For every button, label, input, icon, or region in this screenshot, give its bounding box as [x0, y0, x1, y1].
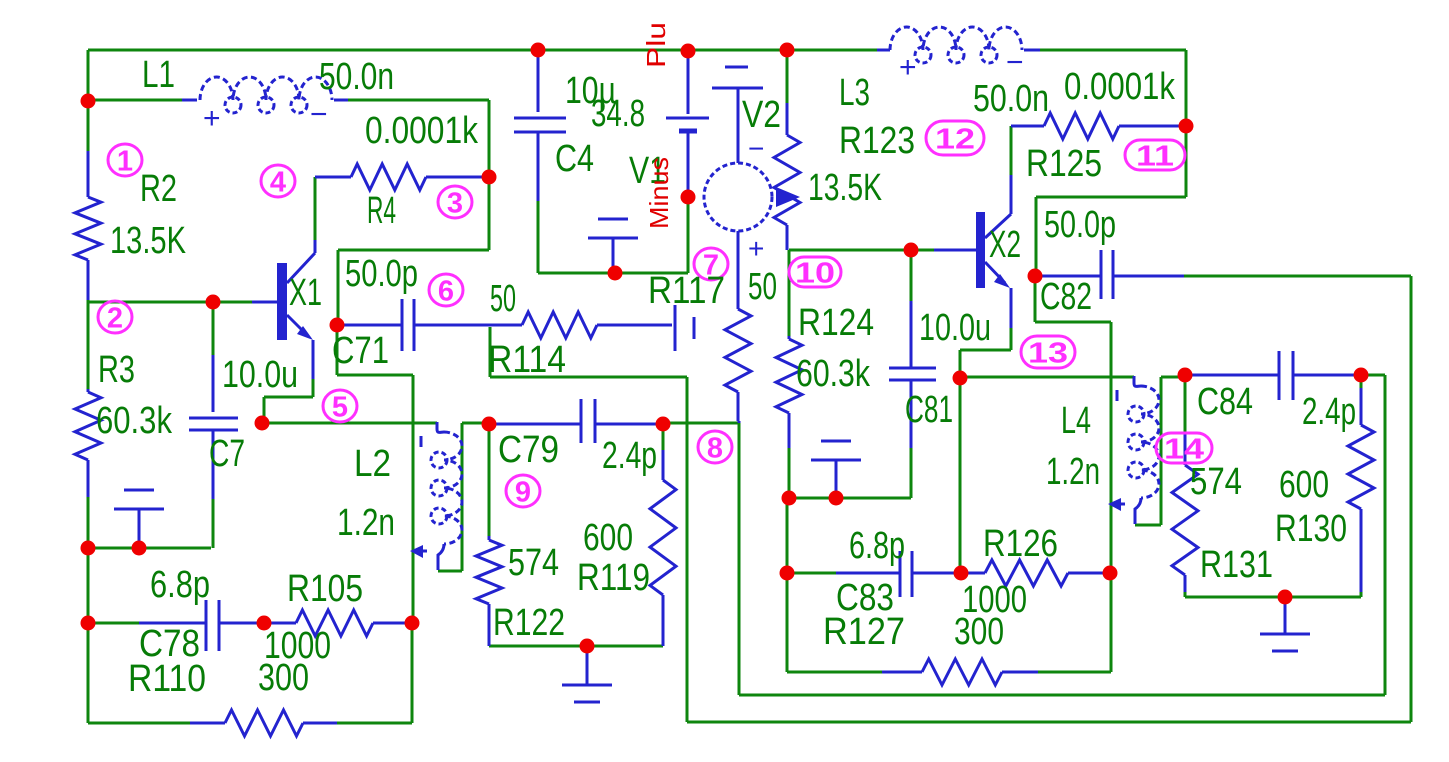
svg-text:50.0n: 50.0n	[319, 56, 394, 98]
svg-text:12: 12	[935, 123, 975, 155]
svg-text:6: 6	[438, 275, 454, 307]
svg-text:3: 3	[447, 187, 463, 219]
svg-text:Minus: Minus	[644, 157, 674, 229]
svg-text:R3: R3	[98, 349, 135, 391]
svg-text:1: 1	[117, 145, 133, 177]
svg-text:R122: R122	[493, 602, 565, 644]
svg-text:L4: L4	[1061, 400, 1091, 442]
svg-text:C71: C71	[332, 330, 389, 372]
svg-text:C7: C7	[209, 433, 245, 475]
svg-text:10.0u: 10.0u	[919, 307, 991, 349]
svg-text:50.0p: 50.0p	[345, 253, 418, 295]
svg-text:R130: R130	[1275, 508, 1347, 550]
svg-text:X1: X1	[289, 272, 322, 314]
svg-text:2: 2	[107, 302, 123, 334]
svg-text:574: 574	[1190, 461, 1242, 503]
svg-text:50.0n: 50.0n	[973, 78, 1049, 120]
svg-text:R124: R124	[798, 302, 874, 344]
svg-text:+: +	[748, 233, 764, 264]
svg-text:8: 8	[707, 432, 723, 464]
svg-text:C84: C84	[1197, 381, 1253, 423]
svg-text:60.3k: 60.3k	[96, 400, 173, 442]
svg-text:0.0001k: 0.0001k	[365, 110, 479, 152]
svg-text:L1: L1	[142, 54, 175, 96]
svg-text:R114: R114	[488, 339, 566, 381]
svg-text:R119: R119	[577, 557, 650, 599]
svg-text:R131: R131	[1200, 544, 1273, 586]
svg-text:R110: R110	[128, 658, 206, 700]
svg-text:4: 4	[270, 166, 286, 198]
svg-text:L2: L2	[354, 443, 391, 485]
svg-text:R123: R123	[839, 120, 915, 162]
svg-text:R127: R127	[823, 611, 905, 653]
svg-text:0.0001k: 0.0001k	[1064, 66, 1176, 108]
svg-text:R126: R126	[983, 523, 1058, 565]
svg-text:300: 300	[258, 657, 309, 699]
svg-text:13.5K: 13.5K	[808, 167, 882, 209]
svg-text:−: −	[310, 98, 328, 131]
svg-text:10: 10	[795, 257, 835, 289]
svg-text:1.2n: 1.2n	[337, 502, 395, 544]
svg-text:R125: R125	[1026, 143, 1102, 185]
svg-text:−: −	[748, 133, 764, 164]
svg-text:11: 11	[1136, 140, 1174, 172]
svg-text:C79: C79	[498, 429, 559, 471]
svg-text:C4: C4	[555, 138, 594, 180]
svg-text:6.8p: 6.8p	[849, 525, 905, 567]
svg-text:574: 574	[508, 542, 559, 584]
svg-text:10.0u: 10.0u	[222, 354, 298, 396]
svg-text:L3: L3	[839, 72, 870, 114]
svg-text:60.3k: 60.3k	[796, 353, 871, 395]
svg-text:C81: C81	[905, 389, 953, 431]
svg-text:R4: R4	[367, 190, 396, 232]
svg-text:Plu: Plu	[641, 22, 671, 68]
svg-text:50: 50	[490, 278, 516, 320]
svg-text:C82: C82	[1040, 276, 1092, 318]
svg-text:13: 13	[1028, 337, 1068, 369]
svg-text:6.8p: 6.8p	[150, 564, 210, 606]
svg-text:34.8: 34.8	[591, 93, 645, 135]
svg-text:9: 9	[515, 476, 531, 508]
svg-text:+: +	[203, 102, 221, 135]
svg-text:+: +	[899, 51, 917, 84]
svg-text:50.0p: 50.0p	[1044, 204, 1116, 246]
svg-text:13.5K: 13.5K	[110, 220, 186, 262]
svg-text:1.2n: 1.2n	[1046, 451, 1100, 493]
svg-text:2.4p: 2.4p	[1302, 391, 1356, 433]
svg-text:R2: R2	[140, 168, 177, 210]
svg-text:−: −	[1006, 46, 1024, 79]
svg-text:5: 5	[332, 391, 348, 423]
svg-text:R105: R105	[287, 568, 363, 610]
svg-text:V2: V2	[742, 94, 781, 136]
svg-text:600: 600	[1279, 464, 1329, 506]
svg-text:50: 50	[748, 266, 777, 308]
svg-text:R117: R117	[648, 270, 725, 312]
svg-text:600: 600	[583, 517, 633, 559]
svg-text:2.4p: 2.4p	[602, 435, 657, 477]
svg-text:X2: X2	[989, 224, 1021, 266]
svg-text:300: 300	[954, 611, 1004, 653]
